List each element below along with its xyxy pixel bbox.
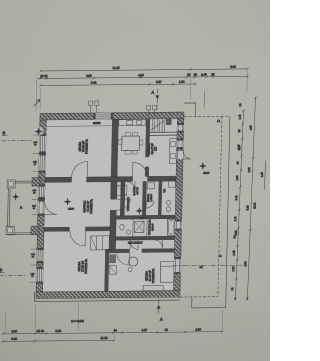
svg-text:PARKETTA: PARKETTA bbox=[84, 259, 88, 274]
svg-text:WC: WC bbox=[163, 188, 166, 192]
svg-text:2.43: 2.43 bbox=[235, 195, 238, 200]
svg-text:2.00: 2.00 bbox=[230, 65, 236, 69]
svg-text:5.26: 5.26 bbox=[55, 329, 61, 333]
svg-text:B: B bbox=[3, 130, 6, 135]
svg-text:4.59: 4.59 bbox=[250, 125, 253, 130]
svg-text:4.90: 4.90 bbox=[138, 73, 144, 77]
svg-text:4.27: 4.27 bbox=[141, 328, 147, 332]
svg-text:2.05: 2.05 bbox=[248, 167, 251, 172]
svg-text:11.20: 11.20 bbox=[100, 336, 107, 340]
svg-text:45.90: 45.90 bbox=[68, 208, 75, 211]
svg-text:PARKETTA: PARKETTA bbox=[89, 199, 93, 214]
svg-text:A: A bbox=[151, 90, 154, 95]
svg-text:4.17 M²: 4.17 M² bbox=[136, 187, 139, 195]
svg-text:KÖZLEKEDŐ: KÖZLEKEDŐ bbox=[128, 240, 143, 244]
svg-text:3.57: 3.57 bbox=[156, 80, 162, 84]
svg-text:8.41: 8.41 bbox=[91, 81, 97, 85]
svg-text:4.59: 4.59 bbox=[237, 145, 241, 151]
svg-text:1.60 M²: 1.60 M² bbox=[150, 194, 153, 202]
svg-text:M = 1:100: M = 1:100 bbox=[71, 319, 84, 323]
svg-text:98: 98 bbox=[165, 328, 169, 332]
svg-text:1.40: 1.40 bbox=[239, 114, 242, 119]
svg-text:5.28: 5.28 bbox=[246, 205, 249, 210]
svg-text:4.99: 4.99 bbox=[86, 74, 92, 78]
svg-text:35: 35 bbox=[187, 73, 191, 77]
svg-text:15 30: 15 30 bbox=[37, 329, 45, 333]
svg-text:1.98: 1.98 bbox=[232, 266, 235, 271]
svg-text:1.98: 1.98 bbox=[179, 80, 185, 84]
svg-text:13: 13 bbox=[194, 73, 198, 77]
svg-text:14: 14 bbox=[114, 328, 118, 332]
svg-text:25: 25 bbox=[211, 72, 215, 76]
svg-text:45.05: 45.05 bbox=[203, 172, 210, 175]
svg-text:2.40: 2.40 bbox=[201, 73, 207, 77]
svg-text:A: A bbox=[160, 317, 163, 322]
svg-text:B: B bbox=[0, 267, 3, 272]
svg-text:5.90: 5.90 bbox=[244, 261, 247, 266]
svg-text:3.59: 3.59 bbox=[234, 230, 238, 236]
svg-text:1.35: 1.35 bbox=[233, 250, 236, 255]
svg-text:3.30: 3.30 bbox=[11, 337, 17, 341]
svg-text:PARKETTA: PARKETTA bbox=[85, 139, 89, 154]
svg-text:PARKETTA: PARKETTA bbox=[151, 268, 155, 283]
svg-text:45.90: 45.90 bbox=[140, 217, 147, 220]
svg-text:11.10: 11.10 bbox=[112, 66, 119, 70]
svg-text:6.20 M²: 6.20 M² bbox=[151, 223, 154, 231]
svg-text:3.30: 3.30 bbox=[11, 329, 17, 333]
svg-text:15.78: 15.78 bbox=[254, 202, 257, 209]
svg-text:1.40: 1.40 bbox=[234, 216, 237, 221]
svg-text:2.86: 2.86 bbox=[195, 328, 201, 332]
svg-text:90/150: 90/150 bbox=[93, 122, 101, 125]
svg-text:KÖZLEKEDŐ: KÖZLEKEDŐ bbox=[126, 197, 130, 211]
svg-text:1.98: 1.98 bbox=[236, 175, 239, 180]
svg-text:15 35: 15 35 bbox=[40, 74, 48, 78]
svg-text:1.05: 1.05 bbox=[261, 172, 264, 177]
